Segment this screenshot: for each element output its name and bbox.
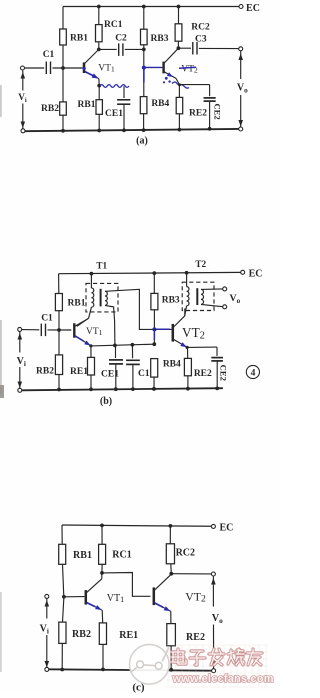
svg-text:4: 4: [251, 369, 256, 379]
svg-text:RB3: RB3: [151, 34, 169, 44]
svg-text:RB1: RB1: [78, 100, 96, 110]
svg-text:(b): (b): [100, 396, 112, 407]
svg-text:C3: C3: [195, 35, 207, 45]
svg-text:RB1: RB1: [70, 34, 88, 44]
svg-text:CE2: CE2: [219, 365, 229, 381]
svg-text:EC: EC: [246, 3, 260, 14]
svg-text:T1: T1: [96, 261, 107, 271]
svg-text:RB1: RB1: [68, 298, 86, 308]
svg-text:CE2: CE2: [212, 103, 222, 119]
svg-text:RE2: RE2: [194, 369, 212, 379]
svg-text:RB4: RB4: [163, 360, 181, 370]
svg-text:VT2: VT2: [181, 64, 198, 74]
svg-text:T2: T2: [195, 259, 206, 269]
svg-text:RE2: RE2: [189, 109, 207, 119]
svg-text:RC1: RC1: [104, 20, 123, 30]
svg-text:RC2: RC2: [191, 22, 210, 32]
svg-text:RE2: RE2: [186, 632, 205, 643]
svg-text:www.elecfans.com: www.elecfans.com: [172, 673, 274, 685]
svg-text:RC2: RC2: [176, 548, 195, 559]
svg-text:C1: C1: [138, 369, 150, 379]
svg-text:RB2: RB2: [41, 104, 59, 114]
svg-text:RB1: RB1: [73, 550, 92, 561]
svg-text:RB3: RB3: [162, 295, 180, 305]
svg-text:RB2: RB2: [36, 366, 54, 376]
svg-text:VT1: VT1: [98, 64, 115, 74]
svg-text:VT1: VT1: [86, 327, 103, 337]
svg-text:RE1: RE1: [119, 630, 138, 641]
svg-text:RC1: RC1: [112, 550, 131, 561]
svg-text:RE1: RE1: [70, 367, 88, 377]
svg-text:C1: C1: [43, 50, 55, 60]
svg-text:VT1: VT1: [107, 593, 124, 604]
svg-text:CE1: CE1: [105, 109, 123, 119]
svg-text:EC: EC: [219, 522, 233, 533]
svg-text:EC: EC: [249, 268, 263, 279]
svg-text:CE1: CE1: [101, 370, 119, 380]
svg-text:C2: C2: [115, 34, 127, 44]
svg-text:(a): (a): [136, 136, 148, 147]
svg-text:RB4: RB4: [151, 99, 169, 109]
svg-text:RB2: RB2: [72, 629, 91, 640]
svg-text:C1: C1: [41, 314, 53, 324]
